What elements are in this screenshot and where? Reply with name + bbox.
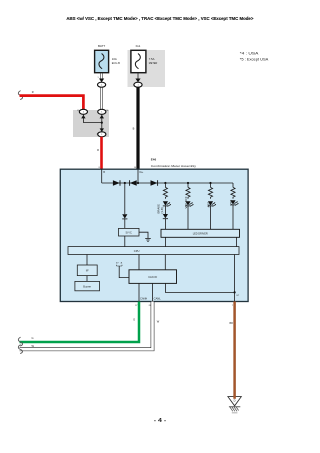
svg-text:5V IC: 5V IC [126,232,132,235]
svg-text:B: B [133,127,135,131]
wire: CPU to CAN I/F (left) [138,255,140,270]
wire: brown ground wire [233,302,236,399]
LED2 SLIP indicator [185,201,193,206]
wire: branch 4 drop [232,183,234,187]
svg-text:IG1: IG1 [136,44,141,48]
wire: I/F to buzzer [86,276,88,282]
resistor R3 [208,187,212,198]
wire: CAN I/F to pin CANH [138,283,140,301]
svg-text:ECU-B: ECU-B [112,61,120,65]
wire: CPU right line to ET node [234,255,236,293]
fuse F2 gray background (instrument panel J/B) [128,50,166,87]
svg-text:R: R [97,148,99,152]
svg-text:ABS <w/ VSC , Except TMC Mode>: ABS <w/ VSC , Except TMC Mode> , TRAC <E… [66,16,253,21]
block: I/F [77,265,97,276]
wire: LED driver to CPU (left stub) [164,237,166,246]
node: rail junction to 5V IC [124,182,126,184]
wire: pin IG+ to rail [137,169,139,183]
diode D2 (from IG+) [130,180,137,186]
node: rail tap branch 1 [164,182,166,184]
fuse F1 ECU-B body [95,50,109,72]
wire: junction block internal [83,114,101,132]
connector oval below BATT fuse [98,82,106,87]
svg-text:G: G [133,318,135,322]
svg-text:(1-B): (1-B) [160,207,164,213]
svg-text:CPU: CPU [134,250,140,253]
wire: CPU to I/F [86,255,88,266]
wire: CAN I/F to pin CANL [152,283,154,301]
LED4 VSC indicator [230,200,238,205]
svg-text:Combination Meter Assembly: Combination Meter Assembly [151,164,197,168]
svg-text:CANL: CANL [154,298,162,301]
svg-text:1: 1 [98,77,99,79]
svg-text:*4 : USA: *4 : USA [240,52,260,56]
svg-text:METER: METER [149,61,158,65]
wire: pin B to rail [101,169,103,183]
diode D5 (branch 1 lower) [163,214,168,219]
block: LED DRIVER [161,229,240,237]
wire: below IG1 fuse [137,73,139,79]
fuse F2 METER body [131,50,146,72]
wire: power rail [102,182,233,184]
resistor R4 [231,187,235,198]
page connector squiggle (white wire) [18,345,22,354]
svg-text:CANH: CANH [140,298,147,301]
wire: BATT white wire down to junction block [101,87,103,109]
wire: branch 2 drop [187,183,189,187]
junction block J/B (gray) [73,110,109,137]
value label 10A ECU-B [112,57,120,65]
diode D4 (to 5V IC) [122,214,127,219]
value label 7.5A METER [149,57,158,65]
component U1 E46 combination meter label [151,158,197,168]
wire: rail node to diode D4 [124,183,126,214]
wire: branch 1 drop [164,183,166,187]
ground (internal, meter) [145,238,151,241]
node: rail tap branch 2 [187,182,189,184]
connector oval 1E (junction block top-right) [98,109,106,114]
svg-text:CAN I/F: CAN I/F [148,276,157,279]
node: rail junction at IG+ [137,182,139,184]
wire: CAN I/F right drop to ET node [165,283,234,292]
wire: red from J/B down to meter pin B [100,137,103,170]
block: buzzer [75,281,100,290]
wire: 5V IC to internal ground [139,232,148,238]
LED1 BRAKE indicator [163,201,171,206]
arrow: down from oval 1E [100,115,104,119]
arrow: up into oval 1D [81,115,85,119]
block: CPU [68,247,239,255]
wire: branch 3 to LED driver [210,206,212,229]
resistor R1 [163,187,167,198]
diode D3 (to lamp rail) [151,180,158,186]
wire: branch 2 to LED driver [187,206,189,229]
resistor R2 [186,187,190,198]
diode D1 (from B) [113,180,120,186]
wire: black IG1 wire down to meter [136,87,139,169]
connector oval below IG1 fuse [134,82,142,87]
block: 5V IC [119,228,140,236]
svg-text:Buzzer: Buzzer [83,285,91,288]
bracket for 5V-B [117,265,123,266]
svg-text:I/F: I/F [86,269,89,272]
wire: CANH green wire [20,302,140,343]
svg-text:*5 : Except USA: *5 : Except USA [240,57,269,61]
wire: LED driver to CPU (right stub) [236,237,238,246]
wire: 5V IC to CPU [124,236,126,247]
wire: branch 1 to LED driver [164,219,166,230]
svg-text:BATT: BATT [98,44,105,48]
node: ET junction [234,291,236,293]
arrow: BATT feed direction [99,79,104,83]
svg-text:R: R [32,90,34,94]
wire: CPU to CAN I/F (right) [164,255,166,270]
wire: below BATT fuse (white wire outline) [101,73,103,79]
svg-text:- 4 -: - 4 - [154,418,167,424]
wire: CANL white wire (outlined) [20,302,155,351]
wire: diode D4 to 5V IC [124,219,126,228]
svg-text:G: G [32,336,34,340]
svg-text:D: D [234,399,236,403]
component U1 E46 combination meter body [60,169,248,301]
LED3 ABS indicator [208,201,216,206]
wire: branch 4 to LED driver [232,205,234,229]
node: rail tap branch 3 [209,182,211,184]
wire: brown tip into ground triangle [233,396,236,399]
svg-text:5V→B: 5V→B [116,262,123,264]
svg-text:E46: E46 [151,158,157,162]
block: CAN I/F [129,270,177,284]
arrow: IG1 feed direction [135,79,140,83]
page connector squiggle (green wire) [18,337,22,346]
wire: red feed from other page [20,96,84,110]
arrow: down into oval 1G [100,128,104,132]
wire: branch 3 drop [210,183,212,187]
svg-text:LED DRIVER: LED DRIVER [193,233,208,236]
svg-text:IG+: IG+ [139,171,144,174]
page connector squiggle (red wire, to other page) [18,91,22,100]
wire: ET node to pin [234,292,236,301]
wire: 5V-B into CAN I/F [119,266,129,278]
node: junction dot inside J/B [101,122,103,124]
svg-text:BR: BR [229,322,233,325]
ground point D (chassis) [228,397,241,413]
wire: branch 1 mid [164,206,166,214]
